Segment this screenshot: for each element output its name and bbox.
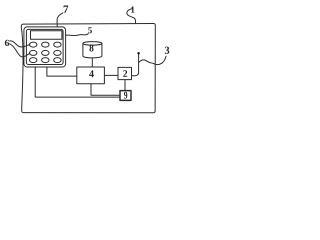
antenna mast 3	[132, 53, 139, 75]
label 9	[124, 92, 127, 99]
label 4	[89, 70, 94, 77]
handset inner face outline	[26, 29, 63, 64]
leader line for label 1	[127, 9, 136, 24]
outer frame (system boundary 1)	[21, 23, 155, 112]
wire box 4 to box 9 (upper bus line)	[91, 84, 120, 96]
handset display window 5	[31, 31, 62, 39]
leader line for label 3	[139, 56, 166, 64]
keypad button 7 (6)	[30, 58, 37, 63]
wire box 2 to box 9	[124, 80, 126, 91]
leader line for label 5	[66, 34, 88, 36]
wire cylinder 8 to box 4	[91, 58, 93, 67]
label 2	[123, 70, 127, 77]
label 3	[165, 47, 169, 54]
keypad button 5 (6)	[42, 50, 49, 55]
handset body outline 7	[24, 27, 66, 67]
keypad button 9 (6)	[54, 58, 61, 63]
label 1	[131, 6, 134, 12]
wire box 4 to box 2	[104, 74, 118, 76]
leader line for label 7	[57, 13, 63, 27]
keypad button 1 (6)	[30, 42, 37, 47]
label 7	[64, 6, 69, 13]
antenna feed dot	[137, 52, 140, 55]
box 4 (control unit)	[77, 67, 105, 84]
keypad button 2 (6)	[42, 42, 49, 47]
keypad button 6 (6)	[54, 50, 61, 55]
wire handset to box 9 (lower bus line)	[35, 67, 120, 97]
label 6	[5, 40, 9, 46]
wire handset to box 4	[47, 67, 77, 76]
label 5	[88, 27, 92, 33]
keypad button 4 (6)	[30, 50, 37, 55]
database cylinder 8	[83, 43, 102, 57]
box 2 (transceiver)	[118, 67, 132, 79]
keypad button 8 (6)	[42, 58, 49, 63]
box 9	[120, 91, 131, 101]
keypad button 3 (6)	[54, 42, 61, 47]
leader line upper for label 6	[10, 41, 30, 47]
label 8	[90, 45, 94, 52]
leader line lower for label 6	[10, 44, 30, 57]
